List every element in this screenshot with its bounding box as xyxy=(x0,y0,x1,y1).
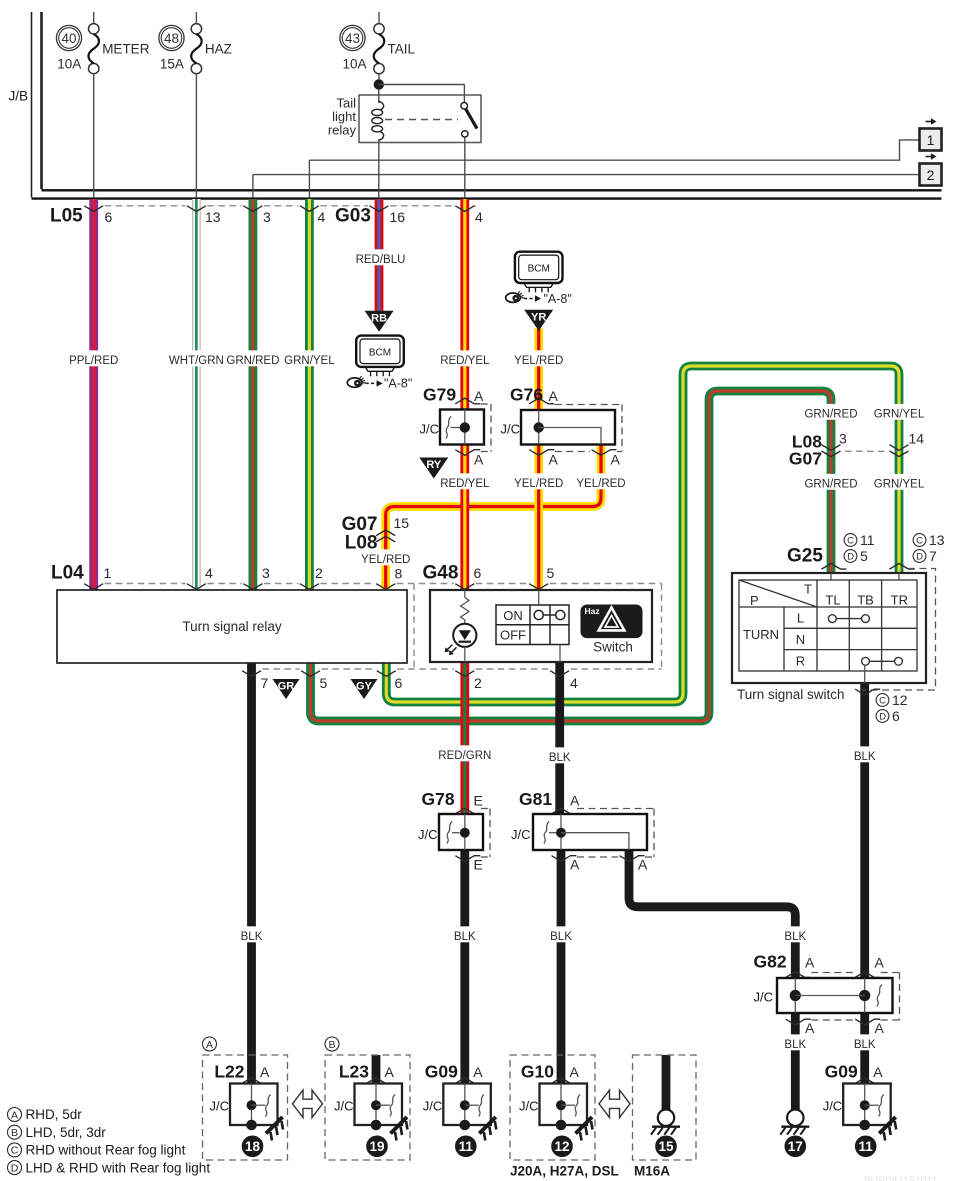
svg-text:C: C xyxy=(916,535,923,546)
svg-text:RY: RY xyxy=(426,459,442,471)
svg-text:3: 3 xyxy=(839,431,847,447)
svg-text:A: A xyxy=(638,857,648,873)
svg-text:11: 11 xyxy=(859,1139,874,1154)
svg-text:3: 3 xyxy=(262,565,270,581)
svg-text:HAZ: HAZ xyxy=(205,42,232,57)
svg-text:BLK: BLK xyxy=(549,752,571,764)
svg-text:G78: G78 xyxy=(422,789,455,809)
svg-text:G09: G09 xyxy=(825,1062,858,1082)
svg-text:J/C: J/C xyxy=(210,1099,230,1114)
svg-text:J/C: J/C xyxy=(519,1099,539,1114)
svg-text:6: 6 xyxy=(474,565,482,581)
svg-text:A: A xyxy=(473,1064,483,1080)
svg-text:J20A, H27A, DSL: J20A, H27A, DSL xyxy=(510,1164,619,1179)
svg-text:C: C xyxy=(879,695,886,706)
svg-text:TL: TL xyxy=(825,593,840,608)
svg-text:J/C: J/C xyxy=(420,422,440,437)
svg-text:13: 13 xyxy=(929,532,945,548)
svg-text:19: 19 xyxy=(369,1139,384,1154)
svg-text:5: 5 xyxy=(320,675,328,691)
svg-text:relay: relay xyxy=(328,123,357,138)
svg-text:G82: G82 xyxy=(754,952,787,972)
svg-text:GRN/RED: GRN/RED xyxy=(226,355,279,367)
svg-text:10A: 10A xyxy=(57,57,81,72)
svg-text:13: 13 xyxy=(205,209,221,225)
svg-text:1: 1 xyxy=(927,132,935,148)
svg-text:BLK: BLK xyxy=(454,931,476,943)
svg-text:D: D xyxy=(879,711,886,722)
svg-text:15: 15 xyxy=(658,1139,674,1154)
svg-text:T: T xyxy=(804,582,812,597)
svg-text:4: 4 xyxy=(570,675,578,691)
svg-text:J8JB0A1151011: J8JB0A1151011 xyxy=(862,1175,938,1181)
svg-text:RHD without Rear fog light: RHD without Rear fog light xyxy=(26,1143,186,1158)
svg-text:D: D xyxy=(916,551,923,562)
svg-text:J/C: J/C xyxy=(501,422,521,437)
svg-text:18: 18 xyxy=(245,1139,261,1154)
svg-text:15A: 15A xyxy=(160,57,184,72)
svg-text:L04: L04 xyxy=(51,563,84,584)
svg-text:A: A xyxy=(206,1039,213,1051)
svg-text:A: A xyxy=(549,452,559,468)
svg-text:17: 17 xyxy=(788,1139,803,1154)
svg-text:G81: G81 xyxy=(519,789,552,809)
svg-text:G76: G76 xyxy=(510,385,543,405)
svg-text:2: 2 xyxy=(927,167,935,183)
svg-text:A: A xyxy=(260,1064,270,1080)
svg-text:A: A xyxy=(385,1064,395,1080)
svg-text:A: A xyxy=(570,1064,580,1080)
svg-text:7: 7 xyxy=(261,675,269,691)
svg-text:"A-8": "A-8" xyxy=(544,292,572,306)
svg-text:8: 8 xyxy=(395,566,403,582)
svg-text:RHD, 5dr: RHD, 5dr xyxy=(26,1107,83,1122)
svg-text:Turn signal relay: Turn signal relay xyxy=(182,619,282,634)
svg-text:J/B: J/B xyxy=(9,89,29,104)
svg-text:BCM: BCM xyxy=(369,348,391,359)
svg-text:BLK: BLK xyxy=(854,1039,876,1051)
svg-text:48: 48 xyxy=(164,31,179,46)
svg-text:4: 4 xyxy=(318,209,326,225)
svg-text:A: A xyxy=(875,955,885,971)
svg-text:A: A xyxy=(805,955,815,971)
svg-text:2: 2 xyxy=(315,565,323,581)
svg-text:10A: 10A xyxy=(343,57,367,72)
svg-text:YEL/RED: YEL/RED xyxy=(576,478,625,490)
svg-text:G10: G10 xyxy=(521,1062,554,1082)
svg-text:GRN/YEL: GRN/YEL xyxy=(874,478,925,490)
svg-text:J/C: J/C xyxy=(754,990,774,1005)
svg-text:YEL/RED: YEL/RED xyxy=(514,355,563,367)
svg-text:15: 15 xyxy=(394,515,410,531)
svg-text:A: A xyxy=(570,793,580,809)
svg-text:J/C: J/C xyxy=(823,1099,843,1114)
svg-text:TAIL: TAIL xyxy=(388,42,416,57)
svg-text:GRN/YEL: GRN/YEL xyxy=(874,408,925,420)
svg-text:1: 1 xyxy=(104,565,112,581)
svg-text:B: B xyxy=(328,1039,335,1051)
svg-text:RED/BLU: RED/BLU xyxy=(356,254,406,266)
svg-text:METER: METER xyxy=(102,42,150,57)
svg-text:J/C: J/C xyxy=(334,1099,354,1114)
svg-text:J/C: J/C xyxy=(511,827,531,842)
svg-text:6: 6 xyxy=(395,675,403,691)
svg-text:4: 4 xyxy=(475,209,483,225)
svg-text:G25: G25 xyxy=(787,546,823,567)
svg-text:12: 12 xyxy=(554,1139,569,1154)
svg-text:40: 40 xyxy=(61,31,76,46)
svg-text:TURN: TURN xyxy=(743,627,779,642)
svg-text:E: E xyxy=(474,857,483,873)
svg-text:WHT/GRN: WHT/GRN xyxy=(169,355,224,367)
svg-text:YEL/RED: YEL/RED xyxy=(361,554,410,566)
svg-text:3: 3 xyxy=(263,209,271,225)
svg-text:5: 5 xyxy=(547,565,555,581)
svg-text:Turn signal switch: Turn signal switch xyxy=(737,687,845,702)
svg-text:PPL/RED: PPL/RED xyxy=(69,355,118,367)
svg-text:A: A xyxy=(611,452,621,468)
svg-text:43: 43 xyxy=(345,31,360,46)
svg-text:G48: G48 xyxy=(423,563,459,584)
svg-text:GRN/RED: GRN/RED xyxy=(804,478,857,490)
svg-text:G07: G07 xyxy=(789,448,822,468)
svg-text:TB: TB xyxy=(857,593,874,608)
svg-text:11: 11 xyxy=(459,1139,474,1154)
svg-text:J/C: J/C xyxy=(418,827,438,842)
svg-text:YR: YR xyxy=(531,311,546,323)
svg-text:BLK: BLK xyxy=(241,931,263,943)
svg-text:4: 4 xyxy=(205,565,213,581)
svg-text:16: 16 xyxy=(390,209,406,225)
svg-text:L22: L22 xyxy=(214,1062,244,1082)
svg-text:D: D xyxy=(847,551,854,562)
svg-text:J/C: J/C xyxy=(423,1099,443,1114)
svg-text:6: 6 xyxy=(892,708,900,724)
svg-text:A: A xyxy=(570,857,580,873)
svg-text:BCM: BCM xyxy=(528,264,550,275)
svg-text:L23: L23 xyxy=(339,1062,369,1082)
svg-text:A: A xyxy=(873,1064,883,1080)
svg-text:LHD, 5dr, 3dr: LHD, 5dr, 3dr xyxy=(26,1125,107,1140)
svg-text:ON: ON xyxy=(503,608,523,623)
svg-text:OFF: OFF xyxy=(500,628,526,643)
svg-text:E: E xyxy=(474,793,483,809)
svg-text:B: B xyxy=(11,1127,18,1139)
svg-text:A: A xyxy=(474,388,484,404)
svg-text:RED/GRN: RED/GRN xyxy=(438,750,491,762)
svg-text:12: 12 xyxy=(892,692,908,708)
svg-text:BLK: BLK xyxy=(784,1039,806,1051)
svg-text:TR: TR xyxy=(891,593,908,608)
svg-text:A: A xyxy=(805,1020,815,1036)
svg-text:G03: G03 xyxy=(335,206,371,227)
svg-text:"A-8": "A-8" xyxy=(384,376,412,390)
svg-text:A: A xyxy=(549,388,559,404)
svg-text:C: C xyxy=(11,1145,19,1157)
svg-text:M16A: M16A xyxy=(634,1164,670,1179)
svg-text:RB: RB xyxy=(371,312,387,324)
svg-text:GY: GY xyxy=(356,681,373,693)
svg-text:Haz: Haz xyxy=(585,606,600,616)
svg-text:14: 14 xyxy=(909,431,925,447)
svg-text:L: L xyxy=(797,611,804,626)
svg-text:R: R xyxy=(796,653,805,668)
svg-text:D: D xyxy=(11,1162,19,1174)
svg-text:5: 5 xyxy=(860,548,868,564)
svg-text:6: 6 xyxy=(105,209,113,225)
svg-text:A: A xyxy=(474,452,484,468)
svg-text:C: C xyxy=(847,535,854,546)
svg-text:BLK: BLK xyxy=(854,751,876,763)
svg-text:GRN/RED: GRN/RED xyxy=(804,408,857,420)
svg-text:RED/YEL: RED/YEL xyxy=(440,355,490,367)
svg-text:2: 2 xyxy=(474,675,482,691)
svg-text:Switch: Switch xyxy=(593,640,633,655)
svg-text:GR: GR xyxy=(278,681,295,693)
svg-text:GRN/YEL: GRN/YEL xyxy=(284,355,335,367)
svg-text:P: P xyxy=(750,593,759,608)
svg-text:N: N xyxy=(796,632,805,647)
svg-text:BLK: BLK xyxy=(550,931,572,943)
svg-text:LHD & RHD with Rear fog light: LHD & RHD with Rear fog light xyxy=(26,1160,211,1175)
svg-text:A: A xyxy=(11,1109,18,1121)
svg-text:A: A xyxy=(875,1020,885,1036)
svg-text:G09: G09 xyxy=(425,1062,458,1082)
svg-text:BLK: BLK xyxy=(784,931,806,943)
svg-text:11: 11 xyxy=(860,532,875,548)
svg-text:L05: L05 xyxy=(50,206,83,227)
svg-text:RED/YEL: RED/YEL xyxy=(440,478,490,490)
svg-text:YEL/RED: YEL/RED xyxy=(514,478,563,490)
svg-text:G79: G79 xyxy=(423,385,456,405)
svg-text:7: 7 xyxy=(929,548,937,564)
